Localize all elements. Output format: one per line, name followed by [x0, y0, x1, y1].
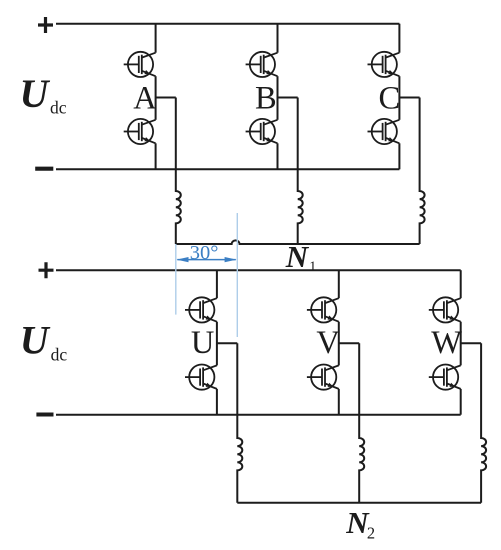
- svg-text:U: U: [20, 71, 51, 116]
- svg-text:B: B: [255, 81, 277, 117]
- svg-text:N: N: [285, 239, 310, 274]
- svg-text:2: 2: [367, 524, 375, 543]
- svg-text:W: W: [431, 325, 462, 361]
- svg-text:1: 1: [309, 259, 316, 274]
- svg-text:V: V: [316, 325, 340, 361]
- svg-text:dc: dc: [50, 97, 67, 117]
- svg-text:30°: 30°: [190, 242, 219, 264]
- svg-text:C: C: [379, 81, 401, 117]
- svg-text:U: U: [191, 325, 214, 361]
- svg-text:dc: dc: [51, 345, 68, 365]
- svg-text:U: U: [20, 318, 51, 363]
- svg-text:A: A: [133, 81, 157, 117]
